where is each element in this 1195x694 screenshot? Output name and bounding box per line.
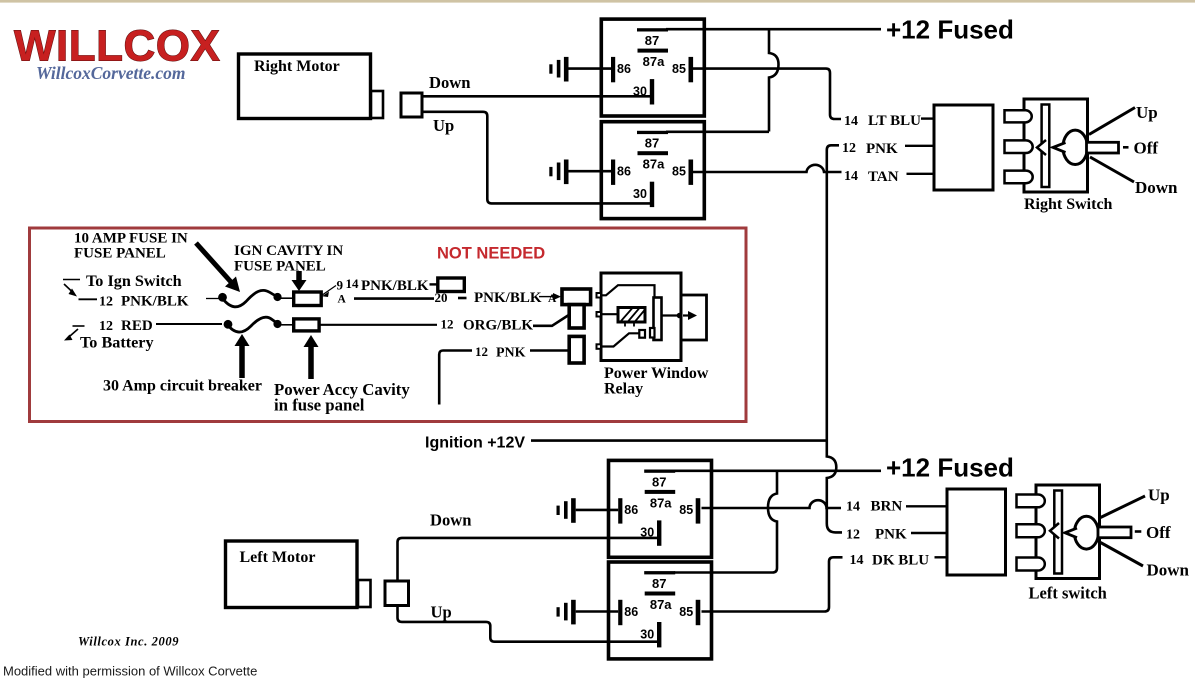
svg-text:+12 Fused: +12 Fused [886,15,1014,45]
svg-text:30: 30 [633,187,647,201]
svg-text:PNK/BLK: PNK/BLK [361,278,429,294]
svg-text:87: 87 [645,136,659,151]
left switch S2 [1017,485,1190,603]
right switch S1 [1005,99,1179,213]
pointer line F1 to label 9 [322,286,337,296]
svg-text:Ignition +12V: Ignition +12V [425,435,525,452]
svg-text:Down: Down [1135,178,1178,197]
connector block J2 (right switch) [934,105,993,190]
S1 Off dash [1123,146,1129,149]
wire K4 pin85 to DK BLU [702,557,843,611]
S2 Off dash [1135,530,1142,533]
ground G2 [549,167,552,176]
K5 armature nub [639,330,645,338]
svg-text:A: A [338,294,347,306]
svg-text:PNK/BLK: PNK/BLK [121,294,189,310]
svg-text:30: 30 [640,526,654,540]
relay K2 [549,122,704,219]
svg-text:NOT NEEDED: NOT NEEDED [437,245,545,263]
wire K3 pin85 to BRN (hop over K4 riser) [702,500,842,508]
svg-text:87a: 87a [650,597,672,612]
dash after PNK/BLK label [430,283,439,285]
svg-text:Up: Up [1136,103,1158,122]
relay K2 pin 85 bar [689,160,694,185]
S1 line to Down [1090,157,1134,182]
wire LT BLU to connector [921,117,933,119]
svg-text:85: 85 [672,165,686,179]
wire K1 pin85 to LT BLU [693,69,841,119]
svg-text:PNK/BLK: PNK/BLK [474,290,542,306]
S2 toggle handle [1098,527,1131,538]
svg-text:30 Amp circuit breaker: 30 Amp circuit breaker [103,378,262,395]
S1 pin 1 [1005,110,1032,122]
svg-text:12: 12 [846,528,860,543]
fuse F2 (not needed) [438,278,465,292]
svg-text:86: 86 [617,165,631,179]
S2 contact bar [1054,491,1062,574]
left motor M2 [226,541,371,608]
arrow 10 AMP FUSE pointer [196,243,231,282]
K5 right housing [681,295,707,340]
svg-text:FUSE PANEL: FUSE PANEL [74,246,166,262]
K5 coil [618,308,645,323]
S1 line to Up [1089,108,1135,135]
S2 line to Up [1101,496,1146,518]
wire up right-motor to relay K2 pin30 [422,112,652,204]
svg-text:Right Motor: Right Motor [254,58,340,75]
K5 internal wire pin3 [601,333,639,346]
svg-text:20: 20 [435,290,448,305]
right motor M1 [239,54,384,119]
wire BRN to connector [906,505,948,507]
relay K3 pin 86 bar [618,498,622,523]
connector block J4 (left switch) [947,489,1006,575]
fuse cavity F1 (ign cavity) [294,292,322,306]
svg-text:Willcox Inc. 2009: Willcox Inc. 2009 [78,635,179,649]
svg-text:14: 14 [846,500,860,515]
wire K4 pin87 riser (hop over BRN wire) [674,471,777,573]
dash at To Battery [73,325,85,327]
svg-text:9: 9 [337,278,344,293]
relay K3 87/87a bar [645,490,676,494]
svg-text:Left switch: Left switch [1029,584,1107,603]
arrow Power Accy pointer [308,346,314,379]
svg-text:ORG/BLK: ORG/BLK [463,318,533,334]
svg-text:85: 85 [679,605,693,619]
S1 pin 3 [1005,171,1033,184]
svg-text:Up: Up [431,603,452,622]
fuse cavity F3 (power accy cavity) [294,319,319,331]
K5 contact bar [654,298,662,341]
dash after 20 [458,297,467,300]
power window relay K5 [597,273,709,398]
relay K4 87/87a bar [645,592,676,596]
relay K3 pin 30 bar [657,520,661,545]
svg-text:IGN CAVITY IN: IGN CAVITY IN [234,243,343,259]
svg-text:87: 87 [645,33,659,48]
relay K1 [549,19,704,116]
svg-text:30: 30 [640,627,654,641]
S2 line to Down [1101,543,1144,567]
wire K2 pin87 horizontal [666,131,769,134]
svg-text:Down: Down [430,511,472,530]
svg-text:86: 86 [617,62,631,76]
wire PNK/BLK to plug A with arrowhead [539,296,553,298]
K5 internal wire pin1 to contact [601,285,655,297]
circuit breaker CB1 (ign) [206,290,294,306]
relay K3 pin 85 bar [696,498,701,523]
svg-text:14: 14 [844,169,858,184]
S1 toggle knob [1063,130,1088,164]
wire K2 pin87 riser to +12 line (hop over K1-85 wire) [769,29,779,132]
svg-text:To Battery: To Battery [80,334,154,352]
top tan border line [0,0,1195,3]
relay K1 pin 30 bar [650,79,654,104]
wire TAN to connector [907,173,934,175]
svg-text:87: 87 [652,576,666,591]
svg-text:BRN: BRN [871,499,903,515]
connector plug J1 (right motor) [401,93,422,117]
svg-text:87a: 87a [650,495,672,510]
relay K1 pin 85 bar [689,57,694,82]
K5 pin nub 2 [597,312,602,317]
relay K2 pin 86 bar [611,160,615,185]
relay K1 87/87a bar [638,49,669,53]
S1 pin 2 [1005,140,1033,153]
K5 pin nub 3 [597,344,602,349]
svg-text:85: 85 [672,62,686,76]
wire K3 pin87 to +12 Fused (bottom) [674,469,881,472]
svg-text:86: 86 [624,605,638,619]
svg-text:To Ign Switch: To Ign Switch [86,272,182,290]
svg-text:Modified with permission of W: Modified with permission of Willcox Corv… [3,664,257,679]
plug P1 (PNK/BLK cavity) [562,289,591,305]
relay K4 pin 86 bar [618,600,622,625]
K5 armature nub 2 [650,328,655,338]
wire down right-motor to relay K1 pin30 [422,95,652,98]
wire 12 RED to breaker [156,323,222,325]
connector plug J3 (left motor) [385,581,409,606]
svg-text:PNK: PNK [875,527,907,543]
svg-text:TAN: TAN [868,169,899,185]
K5 coil ticks [625,322,634,327]
wire ORG/BLK to plug P1 [533,315,570,326]
S1 contact bar [1042,105,1050,188]
svg-text:Off: Off [1146,523,1171,542]
wire K2 pin85 to TAN (hop over PNK riser) [693,165,842,172]
svg-text:12: 12 [99,295,113,310]
S2 pin 2 [1017,524,1045,537]
wire 12 PNK to plug P2 [530,349,569,352]
wire DK BLU to connector [935,556,948,558]
wire 12 PNK stub left [439,351,472,405]
svg-text:87a: 87a [643,157,665,172]
arrow glyph at To Battery [70,329,78,336]
svg-text:PNK: PNK [496,346,526,361]
S2 toggle knob [1074,516,1098,549]
svg-text:30: 30 [633,84,647,98]
ground G3 [557,506,560,515]
wire down left-motor to relay K3 pin30 [398,538,661,581]
svg-text:Right Switch: Right Switch [1024,196,1113,213]
wire ground G2 to K2 pin86 [569,170,612,173]
svg-text:12: 12 [99,319,113,334]
wire ignition to riser [531,439,828,442]
svg-text:Left Motor: Left Motor [240,549,316,566]
svg-text:12: 12 [475,344,488,359]
svg-text:10 AMP FUSE IN: 10 AMP FUSE IN [74,231,188,247]
svg-text:Power Window: Power Window [604,365,709,382]
svg-text:Up: Up [433,116,454,135]
svg-text:in fuse panel: in fuse panel [274,396,365,415]
svg-text:14: 14 [850,553,864,568]
relay K2 87/87a bar [638,151,669,155]
S1 contact notch [1037,140,1046,155]
svg-text:Off: Off [1134,139,1159,158]
K5 internal wire pin2 to coil [601,313,618,315]
svg-text:A: A [548,293,557,305]
svg-text:Relay: Relay [604,381,643,398]
wire PNK to connector [905,145,933,147]
svg-text:Down: Down [429,73,471,92]
wire up left-motor to relay K4 pin30 [398,606,661,642]
label 12 PNK/BLK [79,298,98,300]
svg-text:14: 14 [346,276,360,291]
wire F3 to ORG/BLK [319,324,437,326]
relay K3 [557,460,712,557]
relay K1 pin 86 bar [611,57,615,82]
relay K2 pin 30 bar [650,182,654,207]
svg-text:Down: Down [1147,561,1190,580]
svg-text:86: 86 [624,503,638,517]
ground G4 [557,607,560,616]
svg-text:85: 85 [679,503,693,517]
S2 contact notch [1050,523,1059,539]
svg-text:Up: Up [1148,486,1170,505]
K5 pin nub 1 [597,293,602,298]
S2 pin 3 [1017,558,1045,571]
svg-text:DK BLU: DK BLU [872,553,929,569]
wire A to 20 [354,297,434,300]
wire ground G3 to K3 pin86 [576,509,619,512]
svg-text:PNK: PNK [866,141,898,157]
relay K4 pin 85 bar [696,600,701,625]
svg-text:12: 12 [842,141,856,156]
svg-text:RED: RED [121,318,153,334]
wire ground G4 to K4 pin86 [576,610,619,613]
plug P2 (PNK cavity) [569,336,584,363]
svg-text:FUSE PANEL: FUSE PANEL [234,259,326,275]
svg-text:87: 87 [652,474,666,489]
svg-text:14: 14 [844,114,858,129]
wire PNK riser (ignition feed, hops over +12 line, to 12 PNK bottom) [827,145,842,532]
svg-text:87a: 87a [643,54,665,69]
svg-text:LT BLU: LT BLU [868,113,921,129]
svg-text:WillcoxCorvette.com: WillcoxCorvette.com [36,63,186,83]
K5 output wire with junction dot and arrow [662,314,681,316]
wire PNK to connector (bottom) [911,532,948,534]
arrow 30 Amp pointer [239,345,245,378]
arrow glyph below To Ign Switch [64,284,73,293]
svg-text:12: 12 [441,317,454,332]
circuit breaker CB2 (battery) [224,317,294,332]
wire ground G1 to K1 pin86 [569,67,612,70]
dash at To Ign Switch [63,279,80,281]
arrow IGN CAVITY pointer [296,271,302,281]
relay K4 pin 30 bar [657,622,661,647]
svg-text:+12 Fused: +12 Fused [886,453,1014,483]
S2 pin 1 [1017,495,1045,508]
relay K4 [557,562,712,659]
S1 toggle handle [1087,142,1119,153]
fuse panel note box (red) [30,228,747,422]
ground G1 [549,64,552,73]
wire K1 pin87 to +12 Fused [666,28,881,31]
